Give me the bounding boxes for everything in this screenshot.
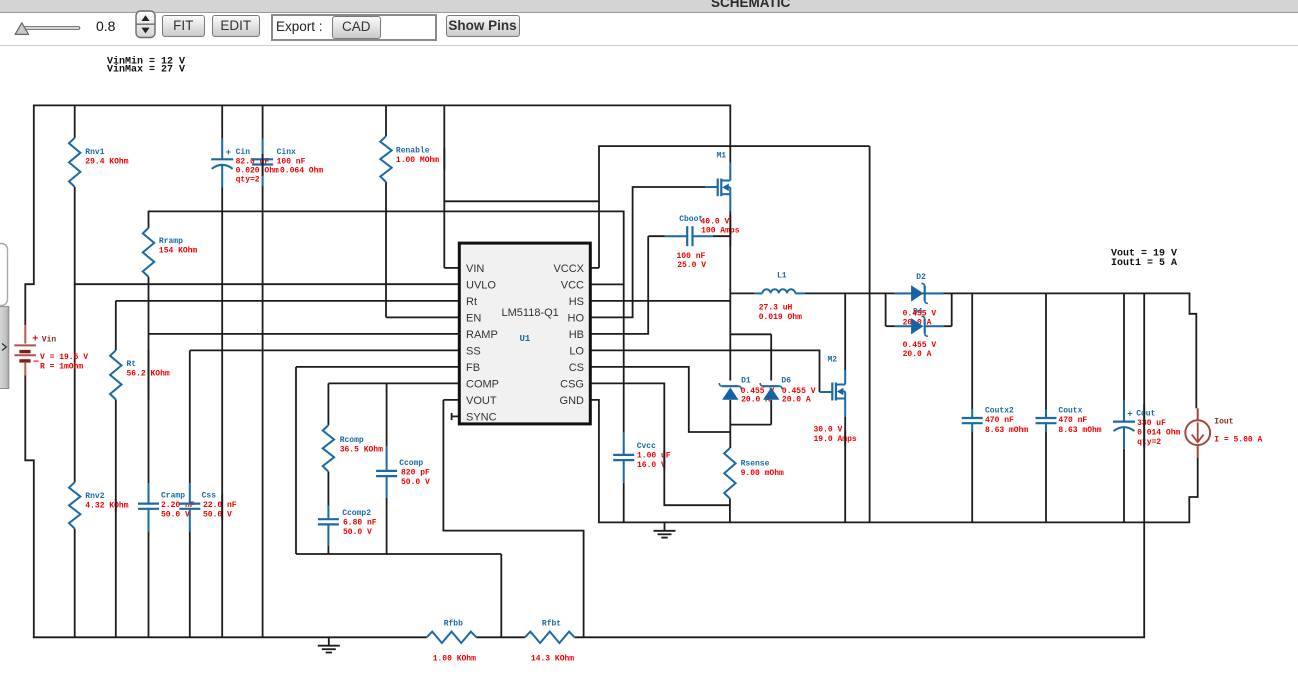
svg-text:Rsense: Rsense [741,460,770,469]
svg-text:50.0 V: 50.0 V [203,510,232,519]
wire left column lower [25,376,34,638]
wire SYNC no-connect tick [451,413,453,420]
inductor L1 [754,292,762,294]
wire feedback rail segment [476,636,525,638]
svg-text:20.0 A: 20.0 A [741,396,770,405]
transistor M1 [717,179,719,197]
svg-text:M1: M1 [717,152,727,161]
svg-text:8.63 mOhm: 8.63 mOhm [1058,426,1101,435]
wire CS pin rail [590,367,730,432]
wire switch node overdraw [729,215,731,246]
wire VIN column [443,105,445,268]
wire Cin column top [221,105,223,138]
wire Coutx branch top [1045,293,1047,409]
svg-text:Iout: Iout [1214,417,1233,426]
op-amp U1 LM5118-Q1 body [459,243,590,424]
wire VCCX ground drop [869,146,871,522]
capacitor Ccomp [386,446,388,471]
svg-text:U1: U1 [520,334,531,344]
svg-text:VCC: VCC [561,279,584,291]
wire Cboot right stub [713,235,731,237]
capacitor Coutx2 [971,409,973,418]
wire GND pin drop [590,400,599,523]
wire M2 gate lead [820,391,833,393]
diode D2 [924,286,926,301]
wire L1 left feed [730,292,754,294]
wire Cin column bottom [221,187,223,637]
svg-text:330 uF: 330 uF [1137,419,1166,428]
capacitor Cin [221,139,223,160]
Export label [276,19,323,34]
svg-text:M2: M2 [828,356,838,365]
svg-text:100 Amps: 100 Amps [701,227,740,236]
svg-text:22.0 nF: 22.0 nF [203,501,237,510]
wire VIN column overdraw [443,148,445,170]
diode D6 [763,385,780,387]
wire VCCX rail [598,145,870,147]
resistor Rsense [724,448,735,499]
wire D6 branch top [770,334,772,380]
svg-text:Cboot: Cboot [679,215,703,224]
wire Rt column overdraw [115,499,117,512]
svg-text:0.014 Ohm: 0.014 Ohm [1137,428,1180,437]
wire VCCX pin stub [590,267,599,269]
diode D4 [924,319,926,334]
wire left column upper [25,105,34,326]
wire Rt column bottom [115,400,117,638]
svg-text:Rramp: Rramp [159,237,183,246]
svg-text:+: + [32,334,38,345]
wire Ccomp2 bottom [327,546,329,554]
source Iout [1197,408,1199,420]
wire Rt column [115,301,117,350]
svg-text:GND: GND [560,395,585,407]
resistor Rnv2 [69,482,80,528]
svg-text:VOUT: VOUT [466,395,497,407]
ground ground G1 [664,522,666,530]
svg-text:Iout1 = 5 A: Iout1 = 5 A [1111,258,1177,269]
wire Cvcc bottom [623,483,625,523]
wire VCCX riser [598,146,600,268]
wire RAMP rail [149,333,460,335]
svg-text:Css: Css [202,491,217,500]
svg-text:V = 19.5 V: V = 19.5 V [40,353,88,362]
wire ground rail bottom-left [33,636,427,638]
svg-text:0.455 V: 0.455 V [903,341,937,350]
wire FB rail [296,366,459,368]
svg-text:qty=2: qty=2 [236,176,260,185]
svg-text:Cramp: Cramp [161,491,185,500]
svg-text:2.20 nF: 2.20 nF [161,501,195,510]
svg-text:470 nF: 470 nF [985,416,1014,425]
svg-text:+: + [226,148,231,158]
svg-text:82.0 uF: 82.0 uF [236,158,270,167]
wire SYNC pin stub [452,415,460,417]
wire VIN pin stub [444,267,459,269]
wire VOUT pin stub [443,399,459,401]
wire switch node to D1 [729,301,731,381]
wire Cout branch top [1123,293,1125,400]
svg-text:100 nF: 100 nF [277,158,306,167]
ground ground G2 [328,637,330,645]
wire D1 anode column [729,400,731,448]
wire Iout return jog [1189,458,1197,523]
resistor Rfbt [525,632,575,643]
wire FB divider junction drop [500,554,502,637]
wire D2 loop left [885,293,887,326]
svg-text:Rfbt: Rfbt [542,619,561,628]
svg-text:HB: HB [569,329,584,341]
svg-text:Rfbb: Rfbb [444,619,463,628]
resistor Rfbb [427,632,477,643]
svg-text:LO: LO [569,345,584,357]
wire VIN-VCCX link rail [444,200,599,202]
svg-text:R = 1mOhm: R = 1mOhm [40,362,83,371]
wire top Vin rail [34,104,731,106]
svg-text:9.00 mOhm: 9.00 mOhm [741,469,784,478]
svg-text:50.0 V: 50.0 V [161,510,190,519]
wire D6 branch bottom [770,400,772,425]
wire M1 source to switch node [729,211,731,301]
wire Vout rail end jog [1190,293,1197,409]
wire Cinx column overdraw [262,154,264,176]
svg-text:36.5 KOhm: 36.5 KOhm [340,446,383,455]
wire Cout branch bottom [1123,449,1125,523]
wire D1-D6 anode link [730,424,771,426]
wire Rnv1 column top [74,105,76,137]
svg-text:16.0 V: 16.0 V [637,461,666,470]
EDIT button [212,15,260,38]
transistor M2 [831,383,833,401]
svg-text:4.32 KOhm: 4.32 KOhm [85,501,128,510]
capacitor Css [189,483,191,504]
svg-text:VCCX: VCCX [553,263,584,275]
wire COMP rail [328,382,459,384]
wire M2 source overdraw [844,430,846,446]
wire HO pin rail [590,187,706,317]
svg-text:−: − [33,358,39,369]
svg-text:820 pF: 820 pF [401,468,430,477]
wire Ccomp branch bottom [386,498,388,554]
wire M2 drain riser [844,293,846,370]
wire Rnv1-Rnv2 column [74,187,76,482]
svg-text:20.0 A: 20.0 A [903,318,932,327]
wire Cinx column bottom [262,186,264,637]
svg-text:qty=2: qty=2 [1137,438,1161,447]
wire Css column bottom [189,531,191,637]
wire Cboot left stub [648,235,664,237]
title bar SCHEMATIC [0,0,1298,13]
wire Rramp column overdraw [148,350,150,400]
svg-text:Coutx: Coutx [1058,406,1082,415]
wire Cin column overdraw [221,494,223,520]
svg-text:VIN: VIN [466,263,484,275]
svg-text:20.0 A: 20.0 A [903,350,932,359]
wire power ground bus [598,521,1190,523]
wire Rcomp top [327,383,329,425]
svg-text:Cinx: Cinx [277,148,296,157]
svg-text:1.00 KOhm: 1.00 KOhm [433,655,476,664]
svg-text:154 KOhm: 154 KOhm [159,247,198,256]
svg-text:SS: SS [466,345,481,357]
svg-text:100 nF: 100 nF [677,252,706,261]
capacitor Cramp [148,483,150,504]
svg-text:Rcomp: Rcomp [340,436,364,445]
svg-text:Vin: Vin [42,336,57,345]
wire Vout sense overdraw [1143,404,1145,448]
wire Vout sense column [1143,293,1145,637]
svg-text:25.0 V: 25.0 V [677,261,706,270]
svg-text:20.0 A: 20.0 A [782,396,811,405]
wire Rramp to RAMP rail [148,277,150,483]
wire Rt rail [116,300,460,302]
svg-text:1.00 MOhm: 1.00 MOhm [396,156,439,165]
resistor Renable [380,136,391,182]
svg-text:8.63 mOhm: 8.63 mOhm [985,426,1028,435]
svg-text:HS: HS [569,296,584,308]
svg-text:0.064 Ohm: 0.064 Ohm [280,167,323,176]
wire compensation bottom rail [296,553,501,555]
wire D2 loop bottom right [944,325,952,327]
wire M1 gate lead [706,186,718,188]
wire SS rail [190,349,460,351]
wire M1 drain column [729,105,731,163]
resistor Rnv1 [69,138,80,187]
svg-text:Rnv1: Rnv1 [85,148,104,157]
wire D1-D6 cathode link [730,333,771,335]
wire Rnv2 column bottom [74,529,76,638]
wire VCC pin stub [590,283,623,285]
wire HS pin rail [590,300,730,302]
wire Css column [189,350,191,483]
svg-text:Ccomp2: Ccomp2 [342,509,371,518]
wire Ccomp branch top [386,383,388,446]
svg-text:50.0 V: 50.0 V [343,528,372,537]
wire Rcomp to Ccomp2 [327,472,329,506]
svg-text:0.455 V: 0.455 V [741,387,775,396]
svg-text:+: + [1127,410,1132,420]
svg-text:LM5118-Q1: LM5118-Q1 [502,307,559,319]
svg-text:29.4 KOhm: 29.4 KOhm [85,158,128,167]
wire M1 drain lead [729,163,731,181]
wire Coutx2 branch top [971,293,973,409]
svg-text:D2: D2 [916,273,926,282]
svg-text:RAMP: RAMP [466,329,498,341]
svg-text:27.3 uH: 27.3 uH [759,304,793,313]
wire Renable column top [385,105,387,136]
svg-text:SYNC: SYNC [466,411,497,423]
wire M2 drain lead [844,370,846,385]
spinner control [135,10,161,42]
svg-text:UVLO: UVLO [466,279,496,291]
svg-text:COMP: COMP [466,378,499,390]
wire Rsense bottom [729,499,731,523]
svg-text:470 nF: 470 nF [1058,416,1087,425]
capacitor Cinx [262,139,264,160]
svg-text:Vout = 19 V: Vout = 19 V [1111,248,1177,259]
wire M2 source drop [844,417,846,522]
capacitor Cout [1123,401,1125,422]
svg-text:19.0 Amps: 19.0 Amps [814,435,857,444]
svg-text:Cin: Cin [236,148,251,157]
wire D2 loop bottom left [886,325,895,327]
lead D2 [895,292,912,294]
svg-text:40.0 V: 40.0 V [701,217,730,226]
svg-text:FB: FB [466,362,480,374]
wire VCC rail [149,211,624,432]
svg-text:30.0 V: 30.0 V [814,426,843,435]
svg-text:Cout: Cout [1136,409,1155,418]
source Vin battery [24,325,26,343]
wire CSG overdraw [663,450,665,470]
svg-text:0.019 Ohm: 0.019 Ohm [759,313,802,322]
svg-text:D6: D6 [781,376,791,385]
wire Coutx branch bottom [1045,432,1047,522]
Export fieldset [271,14,437,41]
svg-text:56.2 KOhm: 56.2 KOhm [127,370,170,379]
Show Pins button [446,15,520,38]
svg-text:CS: CS [569,362,584,374]
wire LO pin rail [590,350,819,392]
FIT button [162,15,205,38]
svg-text:EN: EN [466,312,481,324]
zoom value 0.8 [96,18,115,34]
wire VOUT sense route [443,400,583,637]
wire Coutx2 branch bottom [971,432,973,522]
svg-text:0.020 Ohm: 0.020 Ohm [236,167,279,176]
svg-text:Ccomp: Ccomp [399,459,423,468]
svg-text:D1: D1 [741,376,751,385]
svg-text:1.00 uF: 1.00 uF [637,452,671,461]
svg-text:50.0 V: 50.0 V [401,478,430,487]
svg-text:14.3 KOhm: 14.3 KOhm [531,655,574,664]
wire Cinx column top [262,105,264,138]
resistor Rcomp [323,425,334,472]
resistor Rramp [143,228,154,277]
svg-text:I = 5.00 A: I = 5.00 A [1214,436,1262,445]
left panel expander [0,230,14,430]
svg-text:0.455 V: 0.455 V [782,387,816,396]
svg-text:Rt: Rt [127,360,137,369]
capacitor Cboot [665,235,688,237]
lead D4 [895,325,912,327]
resistor Rt [110,350,121,399]
zoom slider [0,0,135,46]
svg-text:VinMin = 12 V: VinMin = 12 V [107,56,185,68]
svg-text:Rt: Rt [466,296,477,308]
capacitor Ccomp2 [327,506,329,520]
wire Cramp column bottom [148,531,150,637]
wire Renable to EN rail [385,182,387,317]
svg-text:HO: HO [568,312,585,324]
svg-text:0.455 V: 0.455 V [903,309,937,318]
wire Vout+ rail [804,292,1189,294]
wire vout-sense rail bottom-right [575,636,1146,638]
svg-text:CSG: CSG [560,378,584,390]
svg-text:Cvcc: Cvcc [637,442,656,451]
wire Rramp top stub [148,211,150,228]
capacitor Coutx [1045,409,1047,418]
diode D1 [722,385,739,387]
svg-text:Rnv2: Rnv2 [85,492,104,501]
wire M2 source lead [844,399,846,418]
wire CSG pin rail [590,383,730,505]
svg-text:VinMax = 27 V: VinMax = 27 V [107,64,185,76]
svg-text:L1: L1 [777,272,787,281]
svg-text:D4: D4 [913,308,923,317]
wire M1 source lead [729,194,731,211]
svg-text:Renable: Renable [396,146,430,155]
wire HB pin rail [590,236,648,334]
wire FB column [295,367,297,554]
svg-text:6.80 nF: 6.80 nF [343,519,377,528]
CAD button [332,16,382,39]
wire UVLO rail [75,283,460,285]
wire EN rail [386,316,459,318]
svg-text:Coutx2: Coutx2 [985,406,1014,415]
capacitor Cvcc [623,432,625,455]
wire D2 loop right [951,293,953,326]
